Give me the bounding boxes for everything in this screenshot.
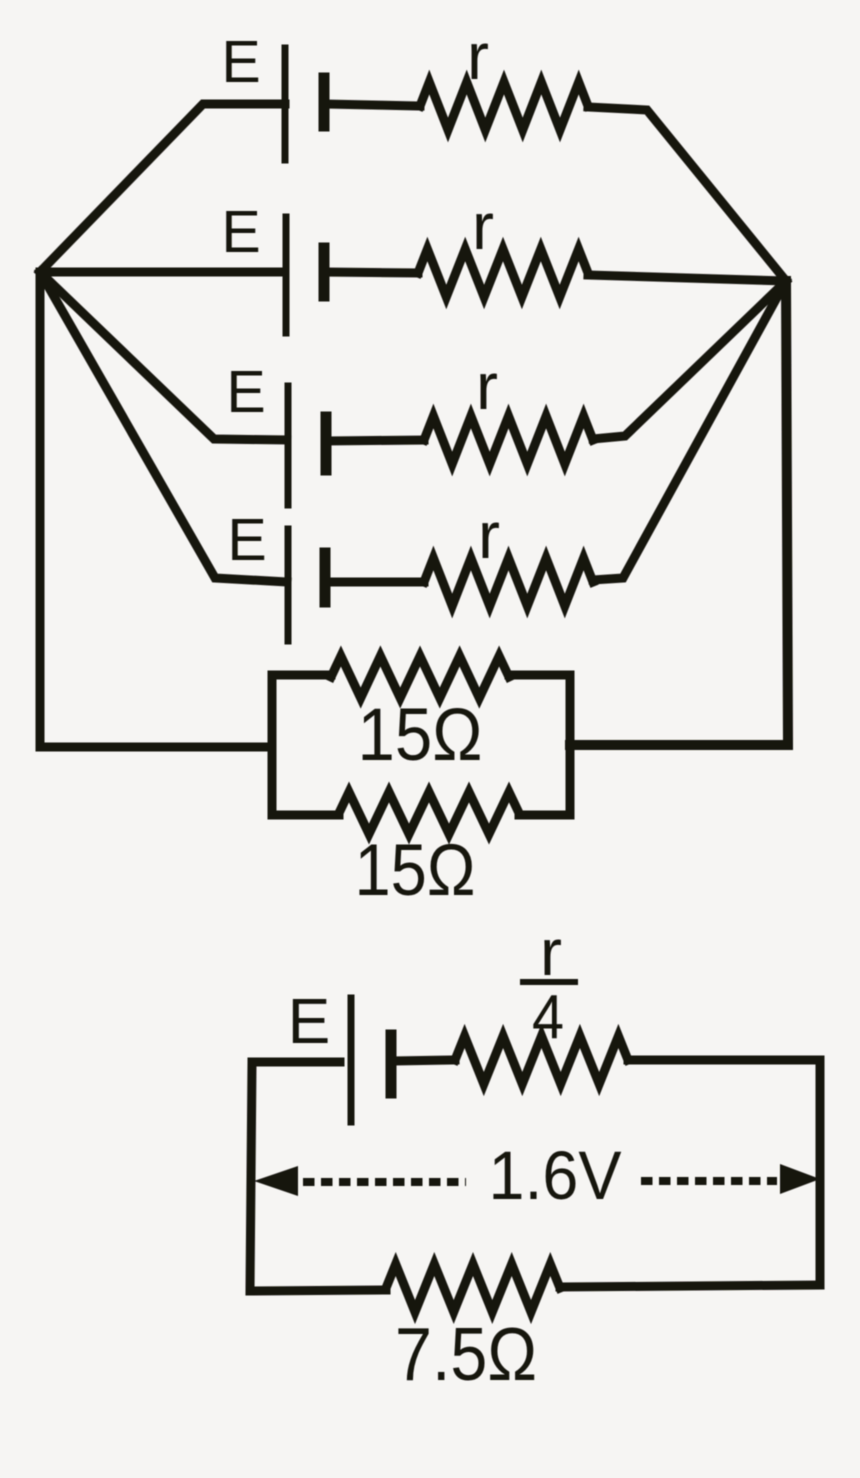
svg-text:7.5Ω: 7.5Ω: [395, 1312, 537, 1396]
svg-text:r: r: [540, 915, 562, 989]
svg-text:1.6V: 1.6V: [489, 1137, 622, 1214]
svg-text:15Ω: 15Ω: [358, 693, 483, 776]
svg-text:E: E: [221, 199, 260, 265]
svg-text:r: r: [478, 498, 500, 572]
svg-text:15Ω: 15Ω: [355, 830, 476, 911]
svg-text:r: r: [467, 19, 489, 93]
svg-text:E: E: [288, 985, 331, 1057]
svg-text:4: 4: [532, 983, 564, 1052]
svg-text:E: E: [226, 359, 265, 425]
svg-text:r: r: [476, 349, 498, 423]
svg-text:E: E: [227, 507, 266, 573]
svg-text:E: E: [221, 29, 260, 95]
svg-text:r: r: [472, 189, 494, 263]
